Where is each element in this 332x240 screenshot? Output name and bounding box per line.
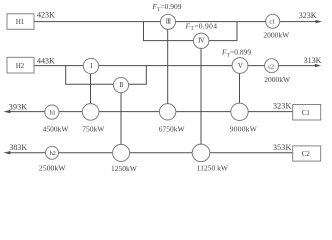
svg-text:383K: 383K [9, 143, 27, 152]
svg-text:2500kW: 2500kW [39, 164, 66, 173]
svg-text:H1: H1 [16, 18, 25, 26]
svg-text:c1: c1 [269, 18, 275, 25]
svg-text:423K: 423K [37, 10, 55, 19]
svg-text:750kW: 750kW [82, 125, 105, 134]
svg-text:C1: C1 [302, 109, 310, 117]
svg-text:2000kW: 2000kW [264, 75, 291, 84]
svg-text:323K: 323K [273, 102, 291, 111]
svg-text:323K: 323K [299, 11, 317, 20]
svg-text:9000kW: 9000kW [230, 125, 258, 134]
svg-text:c2: c2 [268, 63, 274, 70]
svg-text:443K: 443K [37, 56, 55, 65]
svg-text:h2: h2 [50, 150, 56, 157]
svg-text:313K: 313K [304, 56, 322, 65]
svg-text:1250kW: 1250kW [111, 164, 138, 173]
svg-text:H2: H2 [16, 62, 25, 70]
svg-text:6750kW: 6750kW [159, 125, 186, 134]
svg-text:393K: 393K [9, 102, 27, 111]
svg-text:C2: C2 [302, 150, 310, 158]
svg-text:353K: 353K [273, 143, 291, 152]
svg-text:11250 kW: 11250 kW [197, 164, 229, 173]
svg-text:h1: h1 [49, 110, 55, 117]
svg-text:4500kW: 4500kW [43, 125, 70, 134]
svg-text:2000kW: 2000kW [263, 30, 290, 39]
